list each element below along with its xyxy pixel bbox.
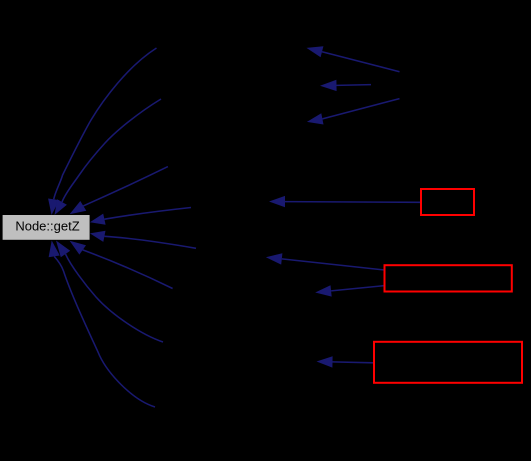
edge red-node-R2 -> caller-node (upper) bbox=[266, 253, 384, 270]
edge caller2a -> caller-node (fan top) bbox=[307, 46, 400, 71]
svg-text:Node::getZ: Node::getZ bbox=[15, 219, 79, 234]
edge caller5 -> Node::getZ (lower horizontal) bbox=[90, 231, 196, 249]
edge red-node-R3 -> caller-node bbox=[317, 356, 374, 367]
edge caller2 -> Node::getZ (inner top arc) bbox=[55, 99, 162, 215]
edge caller2a -> caller-node (fan bottom) bbox=[307, 99, 400, 125]
edge caller4 -> Node::getZ (upper horizontal) bbox=[90, 208, 191, 225]
edge caller2b -> caller-node (fan middle) bbox=[320, 80, 371, 91]
edge red-node-R2 -> caller-node (lower) bbox=[315, 285, 383, 296]
truncated caller node R3 (red box, two-line) bbox=[374, 342, 522, 383]
edge caller1 -> Node::getZ (outer top arc) bbox=[48, 48, 156, 215]
edge caller3 -> Node::getZ (upper diagonal) bbox=[70, 167, 168, 215]
edge red-node-R1 -> caller-node bbox=[269, 196, 420, 207]
current node Node::getZ (gray box) bbox=[3, 215, 90, 240]
edge caller8 -> Node::getZ (outer bottom arc) bbox=[49, 241, 155, 408]
truncated caller node R2 (red box) bbox=[385, 265, 512, 291]
truncated caller node R1 (red box) bbox=[421, 189, 474, 215]
edge caller6 -> Node::getZ (lower diagonal) bbox=[70, 241, 173, 289]
edge caller7 -> Node::getZ (inner bottom arc) bbox=[56, 241, 163, 343]
